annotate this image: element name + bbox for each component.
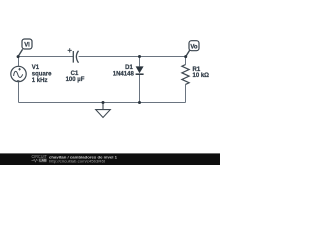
- label V1 value: [32, 65, 52, 84]
- svg-text:R1: R1: [193, 67, 201, 73]
- wire diode top stub: [139, 57, 141, 67]
- svg-text:http://circuitlab.com/c45b3R6t: http://circuitlab.com/c45b3R6t: [49, 159, 106, 163]
- wire bottom rail: [19, 102, 186, 104]
- svg-text:1N4148: 1N4148: [113, 71, 135, 77]
- wire left vertical bottom: [18, 82, 20, 103]
- svg-text:square: square: [32, 71, 52, 77]
- wire left vertical top: [18, 57, 20, 67]
- ground: [96, 103, 111, 118]
- label C1 value: [66, 71, 85, 83]
- wire top-left rail: [19, 56, 74, 58]
- svg-text:100 µF: 100 µF: [66, 77, 85, 83]
- svg-text:LAB: LAB: [39, 159, 47, 163]
- svg-text:10 kΩ: 10 kΩ: [193, 73, 210, 79]
- junction dot ground: [102, 101, 105, 104]
- capacitor C1: [68, 48, 79, 63]
- resistor R1: [182, 65, 189, 85]
- node Vo: [184, 41, 199, 58]
- svg-text:V1: V1: [32, 65, 40, 71]
- footer bar: [0, 153, 220, 165]
- junction dot diode bottom: [138, 101, 141, 104]
- wire right vertical top: [185, 57, 187, 65]
- svg-text:Vi: Vi: [24, 43, 30, 49]
- svg-text:C1: C1: [71, 71, 79, 77]
- voltage source V1: [11, 66, 26, 81]
- wire top-right rail: [79, 56, 186, 58]
- label D1 value: [113, 65, 135, 77]
- diode D1: [136, 66, 144, 74]
- footer logo CircuitLab: [32, 154, 48, 163]
- wire right vertical bottom: [185, 84, 187, 102]
- node Vi: [17, 39, 32, 58]
- label R1 value: [193, 67, 210, 79]
- svg-text:Vo: Vo: [190, 44, 198, 50]
- junction dot diode top: [138, 55, 141, 58]
- wire diode bottom stub: [139, 75, 141, 103]
- svg-text:1 kHz: 1 kHz: [32, 78, 48, 84]
- svg-text:D1: D1: [125, 65, 133, 71]
